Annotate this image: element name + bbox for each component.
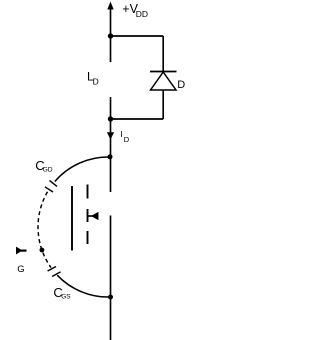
wire source segment xyxy=(110,216,112,298)
inductor LD lower lead xyxy=(110,97,112,119)
transistor Q1 channel dash middle xyxy=(87,209,89,222)
transistor Q1 gate plate xyxy=(71,186,73,251)
label CGS xyxy=(53,285,71,300)
svg-text:GS: GS xyxy=(61,293,71,300)
svg-text:I: I xyxy=(120,129,122,139)
wire arc solid lower (CGS to source) xyxy=(57,275,110,297)
node arc-drain junction xyxy=(108,154,113,159)
svg-text:GD: GD xyxy=(43,166,53,173)
svg-text:D: D xyxy=(177,79,185,91)
svg-text:D: D xyxy=(124,135,130,144)
svg-text:DD: DD xyxy=(136,9,148,19)
transistor Q1 channel dash bottom xyxy=(87,231,89,244)
node top junction xyxy=(108,33,113,38)
supply arrow +VDD xyxy=(107,2,113,37)
node arc-source junction xyxy=(108,295,113,300)
inductor LD upper lead xyxy=(110,36,112,62)
wire diode branch upper xyxy=(162,36,164,72)
wire bottom horizontal from diode to drain node xyxy=(111,118,164,120)
capacitor CGS xyxy=(48,267,61,277)
label ID xyxy=(120,129,129,144)
transistor Q1 channel dash top xyxy=(87,185,89,199)
label CGD xyxy=(35,158,53,173)
svg-text:G: G xyxy=(17,264,24,275)
wire arc solid upper (drain to CGD) xyxy=(55,157,111,182)
wire top horizontal to diode branch xyxy=(111,35,164,37)
capacitor CGD xyxy=(45,180,57,192)
node gate on arc xyxy=(40,248,45,253)
label +VDD xyxy=(122,2,148,19)
label LD xyxy=(87,70,99,87)
transistor Q1 body arrow xyxy=(88,212,99,221)
wire diode branch lower xyxy=(162,90,164,119)
diode D xyxy=(150,72,177,91)
wire source to bottom xyxy=(110,297,112,340)
wire arc dashed gate electrode xyxy=(38,192,51,268)
gate terminal arrow G xyxy=(16,247,27,255)
node drain junction xyxy=(108,116,113,121)
svg-text:D: D xyxy=(93,76,99,86)
wire drain with ID arrow xyxy=(107,119,114,192)
